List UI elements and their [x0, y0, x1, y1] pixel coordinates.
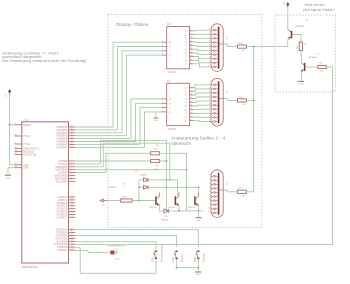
wire D3 cathode to T4 base	[148, 180, 178, 197]
svg-text:(A15)PC7: (A15)PC7	[56, 216, 67, 219]
svg-text:35: 35	[71, 137, 73, 139]
LED1 indicator	[110, 251, 114, 255]
svg-text:18: 18	[15, 134, 17, 136]
diode D3 1N4007	[144, 178, 148, 182]
svg-text:8: 8	[209, 199, 210, 201]
svg-text:33: 33	[71, 143, 73, 145]
wire PD0 to SW3	[75, 230, 198, 247]
switch SW1 Anzeige ein/aus	[152, 244, 164, 262]
nixie tube Z3	[211, 170, 223, 218]
IC1 port C pins	[56, 195, 75, 219]
wire PD2 to SW2	[75, 236, 176, 247]
svg-text:10k0: 10k0	[153, 148, 159, 150]
wire R9 to T1 collector	[300, 51, 303, 63]
resistor R5 10k0	[151, 159, 160, 162]
svg-text:1: 1	[214, 24, 215, 26]
svg-text:1: 1	[214, 170, 215, 172]
svg-text:Die Pinbelegung entspricht nic: Die Pinbelegung entspricht nicht der Sch…	[2, 58, 86, 63]
display board outline (dashed frame)	[108, 15, 262, 228]
svg-text:13: 13	[190, 105, 192, 107]
ground below T1	[298, 80, 304, 82]
wire R2 to anode bus	[247, 99, 254, 101]
svg-text:2: 2	[71, 162, 72, 164]
svg-text:11: 11	[208, 211, 210, 213]
svg-text:36: 36	[71, 134, 73, 136]
wire switch ground rail	[177, 267, 199, 269]
svg-text:identisch!: identisch!	[171, 141, 191, 147]
svg-text:1: 1	[71, 159, 72, 161]
svg-text:(Auf eigener Platine): (Auf eigener Platine)	[303, 8, 334, 12]
diode D1 1N4007	[144, 185, 148, 189]
IC3 ground tie	[155, 112, 157, 118]
supply +HV arrow	[287, 8, 289, 30]
svg-text:9: 9	[209, 203, 210, 205]
svg-text:17: 17	[71, 248, 73, 250]
svg-text:15: 15	[190, 112, 192, 114]
bus wire PB0 to R5	[75, 160, 150, 162]
wire D5 to T4/T5 emitters	[168, 210, 203, 212]
svg-text:12: 12	[71, 234, 73, 236]
resistor R4 10k0	[151, 152, 160, 155]
ground below T5	[195, 217, 201, 219]
svg-text:3: 3	[162, 41, 163, 43]
wire R4 to emitter rail	[159, 153, 186, 211]
svg-text:2: 2	[190, 59, 191, 61]
svg-text:RESET: RESET	[23, 124, 32, 127]
nixie supply board outline (dashed frame)	[275, 15, 336, 92]
svg-text:MPSA42: MPSA42	[308, 56, 317, 59]
wire R8 to PD5 (anode enable)	[75, 67, 332, 245]
svg-text:GND: GND	[6, 177, 11, 179]
resistor R2 27k0	[237, 99, 246, 102]
wire PD7 to LED	[75, 251, 110, 253]
svg-text:12: 12	[190, 44, 192, 46]
microcontroller IC1 MEGA8515-P	[22, 122, 69, 263]
svg-text:7: 7	[162, 49, 163, 51]
svg-text:11: 11	[190, 97, 192, 99]
nixie tube Z2	[211, 78, 223, 126]
svg-text:2: 2	[190, 116, 191, 118]
transistor T3 BF459	[155, 196, 157, 205]
svg-text:39: 39	[71, 125, 73, 127]
resistor R1 27k0	[237, 45, 246, 48]
wire to D1	[139, 186, 144, 188]
wire PD6 loop	[75, 248, 156, 274]
svg-text:8: 8	[190, 86, 191, 88]
wire Z1 anode	[223, 44, 237, 47]
wire diode chain feed	[138, 180, 140, 201]
svg-text:4: 4	[209, 183, 210, 185]
svg-text:28: 28	[71, 216, 73, 218]
svg-text:19: 19	[15, 142, 17, 144]
svg-text:14: 14	[190, 108, 192, 110]
svg-text:10: 10	[208, 207, 210, 209]
svg-text:IC3: IC3	[167, 80, 171, 83]
svg-text:Anzeige ein/aus: Anzeige ein/aus	[160, 244, 163, 262]
resistor R8 27k	[318, 65, 326, 68]
svg-text:10: 10	[190, 37, 192, 39]
svg-text:74141N: 74141N	[168, 128, 177, 131]
transistor T4 BF459	[175, 196, 177, 205]
svg-text:BF459: BF459	[169, 207, 176, 209]
svg-text:SW1: SW1	[152, 256, 155, 262]
wire R6 to T3 base	[132, 200, 155, 202]
svg-text:9: 9	[190, 33, 191, 35]
IC1 left pins	[15, 123, 40, 170]
svg-text:XTAL2: XTAL2	[23, 135, 31, 138]
svg-text:1: 1	[190, 62, 191, 64]
svg-text:26: 26	[71, 210, 73, 212]
svg-text:8: 8	[190, 29, 191, 31]
svg-text:11: 11	[190, 40, 192, 42]
bus wire PB1 to emitter rail	[75, 141, 166, 211]
wire to D3	[139, 179, 144, 181]
svg-text:LED1: LED1	[115, 259, 121, 261]
svg-text:21: 21	[71, 195, 73, 197]
svg-text:14: 14	[190, 51, 192, 53]
svg-text:11: 11	[71, 231, 73, 233]
wire Z2 anode	[223, 99, 237, 101]
svg-text:27: 27	[71, 213, 73, 215]
svg-text:10k0: 10k0	[153, 169, 159, 171]
wire +5V to VCC and RESET	[10, 95, 15, 165]
svg-text:40: 40	[15, 163, 17, 165]
svg-text:4: 4	[162, 53, 163, 55]
svg-text:27k0: 27k0	[238, 97, 244, 99]
svg-text:Nixie ein/aus: Nixie ein/aus	[305, 3, 326, 7]
svg-text:4: 4	[162, 110, 163, 112]
wire SW1 bottom	[155, 259, 157, 273]
svg-text:13: 13	[190, 48, 192, 50]
svg-text:SW3: SW3	[194, 256, 197, 262]
74141 decoder IC2	[167, 27, 190, 69]
bus wires PA0-PA3 to IC2 inputs	[75, 42, 161, 136]
svg-text:27k0: 27k0	[238, 188, 244, 190]
svg-text:SW2: SW2	[172, 256, 175, 262]
svg-text:6: 6	[162, 45, 163, 47]
svg-text:23: 23	[71, 201, 73, 203]
svg-text:MEGA8515-P: MEGA8515-P	[22, 265, 38, 269]
svg-text:15: 15	[71, 243, 73, 245]
svg-text:30: 30	[15, 150, 17, 152]
svg-text:9: 9	[190, 90, 191, 92]
wire T2 collector	[287, 40, 289, 47]
svg-text:3: 3	[71, 165, 72, 167]
svg-text:IC1: IC1	[25, 118, 30, 122]
wire R1 to anode bus	[247, 46, 288, 48]
IC1 port B pins	[55, 159, 76, 183]
svg-text:6: 6	[162, 102, 163, 104]
svg-text:6: 6	[209, 191, 210, 193]
svg-text:GND: GND	[154, 120, 159, 122]
svg-text:(RD)PD7: (RD)PD7	[57, 249, 68, 252]
svg-text:Ansteuerung Stellen 2 - 4: Ansteuerung Stellen 2 - 4	[171, 135, 225, 141]
svg-text:8: 8	[71, 180, 72, 182]
svg-text:13: 13	[71, 237, 73, 239]
svg-text:IC2: IC2	[167, 23, 171, 26]
transistor T2 MPSA92	[291, 31, 293, 39]
ground below switches	[195, 271, 201, 273]
svg-text:20: 20	[15, 166, 17, 168]
wire Z3 anode	[223, 190, 237, 192]
svg-text:GND: GND	[196, 274, 201, 276]
svg-text:7: 7	[162, 106, 163, 108]
wire SW2 bottom	[176, 259, 178, 268]
diode D5 BAV45	[164, 209, 168, 213]
svg-text:1N4007: 1N4007	[109, 187, 117, 189]
wire SW3 bottom to GND	[197, 259, 199, 272]
svg-text:10: 10	[71, 228, 73, 230]
svg-text:GND: GND	[23, 167, 29, 170]
nixie tube Z1	[211, 24, 223, 72]
wire D1 cathode rail	[148, 187, 199, 196]
svg-text:BF459: BF459	[149, 207, 156, 209]
IC1 port A pins	[56, 125, 75, 149]
svg-text:GND: GND	[196, 220, 201, 222]
svg-text:3: 3	[162, 97, 163, 99]
svg-text:5: 5	[71, 171, 72, 173]
svg-text:2: 2	[209, 175, 210, 177]
svg-text:PE2(OC1B): PE2(OC1B)	[23, 153, 36, 156]
wire T1 emitter to GND	[301, 72, 303, 81]
svg-text:29: 29	[15, 153, 17, 155]
transistor T1 MPSA42	[304, 63, 306, 71]
wire T1 base to R8	[305, 66, 318, 68]
anode bus wire	[253, 47, 255, 192]
svg-text:7: 7	[71, 177, 72, 179]
svg-text:7: 7	[209, 195, 210, 197]
resistor R3 27k0	[237, 190, 246, 193]
bus wires PA4-PA7 to IC3 inputs	[75, 99, 161, 147]
svg-text:1N4007: 1N4007	[140, 174, 148, 176]
wires IC3 outputs to tube Z2	[194, 85, 211, 122]
svg-text:+5V: +5V	[101, 204, 105, 206]
svg-text:Display- Platine: Display- Platine	[116, 22, 149, 27]
svg-text:BAV45: BAV45	[162, 218, 169, 221]
switch SW2 Stunden	[172, 251, 184, 262]
svg-text:15: 15	[190, 55, 192, 57]
wire R5 joins PB1 drop	[159, 160, 166, 162]
svg-text:6: 6	[71, 174, 72, 176]
svg-text:(SCK)PB7: (SCK)PB7	[56, 180, 68, 183]
74141 decoder IC3	[167, 83, 190, 125]
svg-text:GND: GND	[298, 84, 303, 86]
svg-text:BF459: BF459	[188, 207, 195, 209]
svg-text:Stunden: Stunden	[181, 252, 184, 262]
transistor T5 BF459	[194, 196, 196, 205]
svg-text:25: 25	[71, 207, 73, 209]
emitter rail with D5	[160, 205, 164, 211]
wire PD4 to SW1	[75, 242, 156, 249]
wire T2 base to R9	[292, 35, 301, 43]
wire GND pin	[8, 168, 15, 175]
svg-text:10: 10	[190, 94, 192, 96]
svg-text:5: 5	[209, 187, 210, 189]
wire R3 to anode bus	[247, 191, 254, 193]
svg-text:74141N: 74141N	[168, 71, 177, 74]
bus wire PB2 to D2 rail	[75, 143, 170, 180]
switch SW3 Minuten	[194, 251, 206, 262]
ground below controller	[5, 174, 11, 176]
svg-text:22: 22	[71, 198, 73, 200]
IC1 port D pins	[54, 228, 75, 252]
svg-text:27k0: 27k0	[238, 43, 244, 45]
svg-text:10k0: 10k0	[122, 197, 128, 199]
svg-text:1: 1	[190, 119, 191, 121]
svg-text:1: 1	[214, 78, 215, 80]
svg-text:MPSA92: MPSA92	[296, 25, 305, 28]
svg-text:37: 37	[71, 131, 73, 133]
svg-text:XTAL1: XTAL1	[23, 143, 31, 146]
resistor R9 100k	[299, 42, 302, 51]
svg-text:9: 9	[15, 123, 16, 125]
bus wire PB4 to R4	[75, 153, 150, 172]
svg-text:(AD7)PA7: (AD7)PA7	[56, 146, 67, 149]
svg-text:32: 32	[71, 146, 73, 148]
svg-text:Minuten: Minuten	[203, 253, 206, 262]
supply +5V arrow (driver)	[100, 199, 103, 202]
wire T5 emitter to GND	[198, 211, 200, 217]
svg-text:3: 3	[209, 179, 210, 181]
bus wire PB3 joins R4 drop	[75, 169, 186, 171]
resistor R6 10k0	[121, 199, 132, 202]
wire +5V to R6	[107, 200, 121, 202]
svg-text:16: 16	[71, 246, 73, 248]
svg-text:31: 31	[15, 147, 17, 149]
svg-text:12: 12	[190, 101, 192, 103]
wires IC2 outputs to tube Z1	[194, 30, 211, 67]
supply +5V arrow (controller)	[9, 89, 11, 94]
svg-text:38: 38	[71, 128, 73, 130]
